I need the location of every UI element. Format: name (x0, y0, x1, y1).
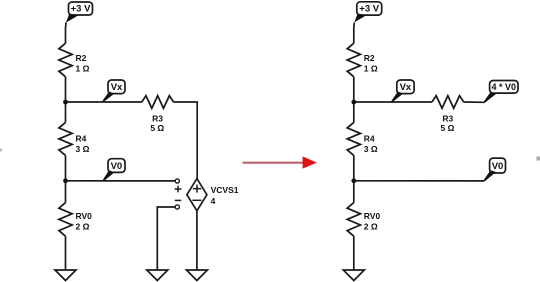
svg-text:RV0: RV0 (76, 211, 93, 221)
svg-text:R3: R3 (152, 113, 163, 123)
svg-text:V0: V0 (492, 161, 504, 172)
svg-text:1 Ω: 1 Ω (76, 63, 90, 73)
svg-text:2 Ω: 2 Ω (364, 222, 378, 232)
svg-text:VCVS1: VCVS1 (211, 185, 239, 195)
svg-text:Vx: Vx (111, 82, 123, 93)
svg-text:R4: R4 (364, 133, 375, 143)
svg-text:R2: R2 (364, 53, 375, 63)
svg-text:+3 V: +3 V (71, 4, 91, 15)
svg-text:2 Ω: 2 Ω (76, 222, 90, 232)
svg-text:4: 4 (211, 196, 216, 206)
svg-text:V0: V0 (111, 161, 123, 172)
svg-text:5 Ω: 5 Ω (441, 123, 455, 133)
svg-text:RV0: RV0 (364, 211, 381, 221)
svg-text:3 Ω: 3 Ω (364, 144, 378, 154)
svg-text:R3: R3 (442, 113, 453, 123)
svg-text:Vx: Vx (400, 82, 412, 93)
svg-text:3 Ω: 3 Ω (76, 144, 90, 154)
svg-text:R2: R2 (76, 53, 87, 63)
svg-text:R4: R4 (76, 133, 87, 143)
svg-text:4 * V0: 4 * V0 (492, 82, 517, 92)
svg-text:1 Ω: 1 Ω (364, 63, 378, 73)
svg-text:5 Ω: 5 Ω (150, 123, 164, 133)
svg-text:+3 V: +3 V (359, 4, 379, 15)
